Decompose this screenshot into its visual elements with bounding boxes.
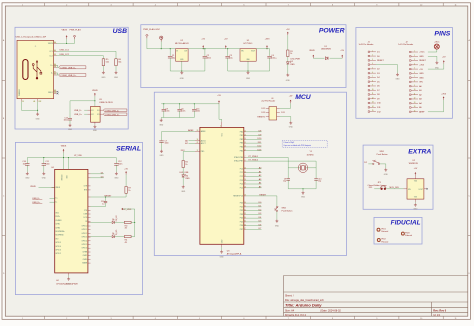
ground C11: [42, 172, 47, 180]
svg-text:VBUS: VBUS: [30, 186, 36, 188]
svg-text:1u: 1u: [102, 203, 104, 205]
svg-text:470: 470: [125, 242, 128, 244]
ground C7: [160, 150, 165, 158]
section box EXTRA: [363, 145, 433, 209]
connector gnd pins: [37, 99, 39, 102]
svg-text:TX_LED: TX_LED: [116, 229, 118, 236]
power +3V3: [265, 39, 271, 49]
resistor R7: [125, 187, 131, 194]
svg-text:PB3: PB3: [240, 143, 243, 145]
svg-text:10u: 10u: [229, 57, 232, 59]
ground connector: [36, 113, 41, 121]
serial U4 CP2102N: [51, 167, 88, 273]
svg-text:GND: GND: [25, 178, 30, 180]
resistor R5: [102, 59, 109, 66]
wire J4 +5V: [280, 103, 291, 108]
svg-text:Id: 1/1: Id: 1/1: [433, 314, 441, 317]
esd pins: [87, 109, 90, 111]
net label A6: [189, 140, 196, 142]
svg-text:RSTb: RSTb: [55, 216, 59, 218]
svg-text:WS2812B: WS2812B: [409, 163, 419, 165]
svg-text:USB: USB: [113, 28, 127, 35]
ground left rail: [180, 71, 185, 80]
mcu bottom gnd pin: [221, 244, 223, 247]
svg-text:LP_VDD: LP_VDD: [74, 155, 82, 157]
reset pullup branch: [124, 169, 128, 175]
svg-text:USB_CC2: USB_CC2: [60, 54, 70, 56]
ground button: [275, 220, 280, 228]
svg-text:R11: R11: [125, 240, 128, 242]
svg-text:1x15 Pin Header: 1x15 Pin Header: [398, 44, 413, 46]
svg-text:B6: B6: [54, 66, 56, 68]
wire R7 to reset: [91, 193, 127, 197]
svg-text:10u: 10u: [172, 57, 175, 59]
power +5V mcu top: [217, 95, 221, 104]
J4 pins: [266, 107, 269, 109]
svg-text:VBUS: VBUS: [61, 145, 67, 147]
U4 right misc pins: [88, 185, 91, 187]
ground J2: [435, 61, 440, 69]
svg-text:R10: R10: [125, 226, 128, 228]
svg-text:RX_LED: RX_LED: [116, 214, 118, 221]
wire C15 gnd: [69, 120, 71, 124]
svg-text:PB2: PB2: [240, 139, 243, 141]
fiducial FID1: [377, 228, 389, 233]
ground C15: [68, 124, 73, 131]
svg-text:USB_D+: USB_D+: [74, 114, 83, 116]
wire C12 gnd: [115, 165, 117, 172]
svg-text:GND: GND: [419, 77, 424, 79]
wire regulator2 out: [256, 48, 269, 50]
mcu right pins: [244, 131, 246, 133]
svg-text:RED: RED: [291, 64, 296, 66]
capacitor C2: [203, 49, 211, 60]
svg-text:PD3: PD3: [240, 214, 244, 216]
svg-text:WAKE: WAKE: [82, 262, 88, 265]
global label COM4_USB_D-: [59, 66, 86, 70]
svg-text:D5: D5: [112, 219, 114, 221]
svg-text:Fiducial: Fiducial: [382, 231, 389, 233]
capacitor C10: [314, 179, 321, 183]
svg-text:B5: B5: [54, 54, 56, 56]
wire gnd rail left: [169, 58, 171, 71]
ground mcu: [220, 250, 225, 258]
mcu top power pins: [221, 122, 223, 128]
wire sw1 to gnd: [380, 164, 386, 168]
U4 bottom gnd: [68, 273, 70, 276]
svg-text:GND: GND: [384, 174, 389, 176]
svg-text:HT7533-1: HT7533-1: [244, 43, 254, 45]
svg-text:PD1: PD1: [240, 206, 244, 208]
wire VBUS: [57, 39, 67, 44]
svg-text:GPIO.4: GPIO.4: [82, 240, 88, 242]
svg-text:1k: 1k: [185, 164, 187, 166]
mcu left pins: [195, 131, 200, 133]
push button SW2: [274, 206, 292, 212]
wire esd gnd: [94, 123, 96, 126]
resistor R11: [115, 236, 131, 244]
svg-text:GND: GND: [220, 257, 225, 259]
svg-text:GPIO.4: GPIO.4: [55, 246, 61, 248]
wire decoupling rail: [161, 103, 219, 105]
led D6: [112, 229, 118, 238]
svg-text:VBUS: VBUS: [48, 43, 54, 45]
wire J4 gnd: [280, 117, 291, 122]
svg-text:13: 13: [372, 102, 374, 104]
svg-text:FIDUCIAL: FIDUCIAL: [391, 220, 421, 227]
svg-text:MCU: MCU: [295, 94, 312, 101]
wire reset to button: [246, 196, 277, 206]
wire J1 gnd pin4: [376, 65, 398, 73]
wire txled row: [91, 236, 112, 238]
svg-text:PD2: PD2: [240, 210, 244, 212]
ground led: [286, 74, 291, 82]
svg-text:PWR_FLAG: PWR_FLAG: [70, 29, 82, 32]
svg-text:14: 14: [414, 106, 416, 108]
svg-text:GND: GND: [419, 56, 424, 58]
svg-text:Caps are included with PCB foo: Caps are included with PCB footprint: [283, 144, 311, 147]
svg-text:CC1: CC1: [49, 51, 53, 53]
section box USB: [15, 27, 128, 129]
svg-text:Size: A4: Size: A4: [285, 310, 295, 313]
power VBUS serial: [61, 145, 67, 152]
ground C14: [25, 172, 30, 180]
svg-text:DIN: DIN: [408, 189, 411, 191]
fiducial FID2: [377, 239, 388, 244]
svg-text:D6: D6: [112, 233, 114, 235]
power +5V mid: [201, 39, 205, 49]
svg-text:20: 20: [197, 130, 199, 132]
svg-text:CHR0: CHR0: [83, 259, 88, 261]
svg-text:Sheet: /: Sheet: /: [285, 295, 294, 298]
svg-text:XTAL2/PB7: XTAL2/PB7: [234, 160, 243, 163]
svg-text:12p: 12p: [318, 181, 321, 183]
svg-text:PB4: PB4: [240, 146, 243, 148]
wire ws2812 gnd: [414, 202, 416, 203]
svg-text:PC3: PC3: [240, 180, 244, 182]
ground C12: [114, 172, 119, 180]
svg-text:GND: GND: [181, 191, 186, 193]
wire VBUS to esd: [70, 101, 95, 107]
svg-text:B12: B12: [39, 101, 42, 103]
svg-text:+VDC: +VDC: [155, 29, 161, 31]
schottky branch VBUS to +5V: [309, 50, 315, 58]
ground sw1: [384, 168, 389, 176]
esd protection U5: [91, 99, 114, 122]
wire connector gnd: [37, 102, 39, 113]
wire button gnd: [276, 212, 278, 220]
svg-text:17: 17: [197, 150, 199, 152]
svg-text:D2: D2: [291, 61, 293, 63]
svg-text:RED: RED: [186, 178, 191, 180]
svg-text:CC2: CC2: [49, 55, 53, 57]
capacitor C13: [192, 104, 200, 113]
svg-text:11: 11: [414, 93, 416, 95]
svg-text:VOUT: VOUT: [251, 51, 255, 53]
svg-text:GPIO.5: GPIO.5: [55, 242, 61, 244]
section box POWER: [141, 25, 346, 88]
svg-text:D+: D+: [55, 198, 57, 200]
svg-text:POWER: POWER: [319, 28, 345, 35]
svg-text:13: 13: [414, 102, 416, 104]
capacitor C8: [162, 104, 170, 113]
capacitor C9: [283, 179, 290, 183]
svg-text:GND: GND: [159, 125, 164, 127]
svg-text:RESET: RESET: [377, 60, 384, 62]
svg-text:PD6: PD6: [240, 225, 244, 227]
svg-text:1N5819WS: 1N5819WS: [321, 49, 332, 51]
svg-text:15: 15: [414, 110, 416, 112]
svg-text:470: 470: [125, 228, 128, 230]
svg-text:B7: B7: [54, 74, 56, 76]
svg-text:PD4: PD4: [240, 218, 244, 220]
capacitor C11: [42, 157, 50, 165]
svg-text:PC1: PC1: [240, 172, 244, 174]
wire xtal gnd: [288, 180, 316, 189]
svg-text:DOUT: DOUT: [419, 189, 423, 191]
svg-text:100u+: 100u+: [271, 57, 277, 59]
svg-text:GND: GND: [413, 208, 418, 210]
power VBUS esd: [92, 90, 98, 96]
capacitor C13 dtr: [88, 196, 107, 206]
svg-text:GND: GND: [160, 155, 165, 157]
push button SW1: [373, 151, 388, 165]
svg-text:SHIELD: SHIELD: [19, 89, 21, 96]
svg-text:VBUS: VBUS: [309, 50, 315, 52]
svg-text:RESET: RESET: [259, 194, 267, 196]
svg-text:USB_C_Receptacle_USB2.0_16P: USB_C_Receptacle_USB2.0_16P: [16, 36, 47, 39]
U4 top pins: [63, 168, 65, 170]
svg-text:PC0: PC0: [240, 168, 244, 170]
svg-text:D+: D+: [50, 65, 52, 67]
svg-text:15: 15: [372, 110, 374, 112]
wire AREF to C7: [162, 131, 187, 133]
section box SERIAL: [15, 142, 142, 294]
diode D1: [321, 46, 332, 60]
svg-text:D1: D1: [325, 46, 327, 48]
wire D+ pair: [56, 73, 59, 75]
resistor R1: [287, 50, 293, 57]
svg-text:VIN: VIN: [241, 51, 244, 53]
svg-text:PC5: PC5: [240, 187, 244, 189]
svg-text:CP2102N-A02-GQFN28: CP2102N-A02-GQFN28: [56, 282, 78, 285]
svg-text:GPIO.3: GPIO.3: [82, 237, 88, 239]
svg-text:2x2 Pin Header: 2x2 Pin Header: [261, 101, 275, 103]
svg-text:GND: GND: [246, 78, 251, 80]
net label USB_D+ serial: [50, 201, 55, 203]
net label USB_D- serial: [50, 197, 55, 199]
svg-text:CHR0: CHR0: [55, 227, 60, 229]
svg-text:PD7: PD7: [240, 229, 244, 231]
svg-text:Fiducial: Fiducial: [405, 235, 412, 237]
svg-text:GND: GND: [275, 225, 280, 227]
svg-text:B8: B8: [54, 92, 56, 94]
power +3V3 J2: [441, 93, 447, 99]
svg-text:COM4_USB_D+: COM4_USB_D+: [60, 75, 77, 77]
wire xtal2: [246, 161, 316, 178]
capacitor C4: [267, 49, 277, 60]
U2 pins: [404, 188, 408, 190]
svg-text:COM4_USB_D-: COM4_USB_D-: [60, 67, 76, 69]
mcu U3 ATmega328P: [200, 127, 244, 255]
svg-text:PD0: PD0: [240, 203, 244, 205]
ground esd: [93, 125, 98, 132]
svg-text:PB1: PB1: [240, 135, 243, 137]
wire AREF: [187, 131, 195, 133]
ground right rail: [246, 71, 251, 80]
svg-text:GND: GND: [396, 78, 401, 80]
wire J2 +5V row: [428, 64, 444, 70]
regulator U1: [240, 40, 256, 61]
wire J2 gnd row: [428, 56, 437, 61]
svg-text:100n: 100n: [207, 57, 211, 59]
svg-text:100n: 100n: [165, 111, 169, 113]
svg-text:100n: 100n: [165, 143, 169, 145]
wire regulator1 out: [188, 48, 240, 50]
power +5V J2: [442, 56, 446, 63]
svg-text:16 MHz: 16 MHz: [307, 154, 314, 156]
global label COM4_USB_D+: [59, 74, 86, 78]
svg-text:5k1: 5k1: [106, 62, 109, 64]
svg-text:GND: GND: [36, 119, 41, 121]
capacitor C7: [159, 140, 168, 144]
svg-text:Title: Arduino Daily: Title: Arduino Daily: [285, 303, 322, 308]
svg-text:VREGIN: VREGIN: [62, 175, 64, 181]
wire USB_CC1: [57, 51, 116, 59]
svg-text:PD5: PD5: [240, 221, 244, 223]
led D5: [112, 214, 118, 223]
svg-text:RESET/PC6: RESET/PC6: [233, 195, 243, 197]
capacitor C1: [168, 49, 175, 60]
wire sw1 left: [368, 163, 372, 165]
section box FIDUCIAL: [374, 217, 422, 244]
svg-text:I/O4: I/O4: [97, 110, 100, 112]
resistor R2: [182, 161, 188, 168]
svg-text:PC4: PC4: [240, 184, 244, 186]
svg-text:VBUS: VBUS: [92, 90, 98, 92]
svg-text:LED_PWR: LED_PWR: [291, 58, 301, 60]
wire C11 gnd: [43, 165, 45, 172]
wire caps gnd: [164, 111, 195, 118]
wire USB_D+ into esd: [84, 113, 87, 115]
svg-text:12: 12: [414, 98, 416, 100]
svg-text:1x15 Pin Header: 1x15 Pin Header: [359, 44, 374, 46]
led D2: [286, 58, 300, 66]
capacitor C14: [22, 158, 29, 166]
svg-text:MIC39L-AE3-R: MIC39L-AE3-R: [175, 42, 189, 45]
wire rxled row: [91, 221, 112, 223]
svg-text:I/O1: I/O1: [91, 110, 94, 112]
svg-text:KiCad E.D.A. 8.0.2: KiCad E.D.A. 8.0.2: [285, 314, 307, 317]
svg-text:C-load = 18pF: C-load = 18pF: [283, 142, 294, 144]
wire R2 to led: [182, 168, 184, 175]
global label COM4_USB_D- right: [103, 109, 127, 112]
wire input rail: [147, 38, 176, 48]
svg-text:SBU1: SBU1: [48, 92, 53, 94]
svg-text:GND: GND: [114, 77, 119, 79]
svg-text:Push Button: Push Button: [377, 153, 388, 156]
svg-text:GND: GND: [286, 80, 291, 82]
wire R1 to LED: [287, 57, 289, 62]
svg-text:GPIO.3: GPIO.3: [55, 250, 61, 252]
svg-text:VIN: VIN: [419, 82, 423, 84]
ground R5: [101, 71, 106, 79]
title block: [284, 276, 468, 317]
power +5V led branch: [286, 29, 290, 35]
power +5V J4: [289, 96, 293, 104]
svg-text:12: 12: [372, 97, 374, 99]
svg-text:VSS: VSS: [414, 197, 417, 199]
svg-text:SUSPEND: SUSPEND: [55, 235, 64, 237]
svg-text:J1: J1: [35, 46, 37, 48]
svg-text:COM4_USB_D+: COM4_USB_D+: [105, 114, 121, 116]
led D4: [180, 172, 191, 180]
connector pin stubs: [54, 42, 57, 44]
wire R5 to gnd: [102, 66, 104, 71]
svg-text:CHR1: CHR1: [55, 224, 60, 226]
svg-text:SUSPENDb: SUSPENDb: [55, 231, 64, 233]
global label COM4_USB_D+ right: [103, 113, 127, 116]
wire C7 gnd: [161, 142, 163, 149]
ground led D4: [181, 185, 186, 193]
svg-text:100n: 100n: [181, 111, 185, 113]
wire J2 +VDC: [428, 49, 437, 52]
svg-text:GPIO.6: GPIO.6: [82, 248, 88, 250]
svg-text:GND: GND: [180, 78, 185, 80]
section box MCU: [154, 92, 346, 255]
svg-text:AREF: AREF: [419, 110, 425, 113]
wire +5V to R1: [287, 35, 289, 50]
svg-text:12p: 12p: [283, 181, 286, 183]
resistor R6: [115, 59, 122, 66]
wire D- pair: [56, 65, 59, 67]
svg-text:5k1: 5k1: [118, 62, 121, 64]
svg-text:GND: GND: [289, 126, 294, 128]
capacitor C12: [114, 158, 122, 166]
svg-text:10u: 10u: [23, 163, 26, 165]
net label VBUS left: [39, 187, 55, 189]
wire jp1 left: [374, 188, 380, 190]
svg-text:RESET: RESET: [419, 60, 426, 62]
svg-text:Fiducial: Fiducial: [382, 241, 389, 243]
svg-text:MCU_DIN: MCU_DIN: [390, 187, 400, 189]
svg-text:LED_USB: LED_USB: [180, 172, 190, 174]
wire jp1 to led: [386, 188, 403, 190]
wire USB_CC2: [57, 56, 104, 59]
capacitor C3: [225, 49, 232, 60]
wire C14 gnd: [26, 165, 28, 172]
power +5V before reg2: [224, 39, 228, 49]
capacitor C6: [177, 104, 185, 113]
svg-text:1k: 1k: [290, 53, 292, 55]
svg-text:100n: 100n: [196, 111, 200, 113]
svg-text:| Date: 2024-08-02: | Date: 2024-08-02: [320, 310, 341, 313]
section box PINS: [356, 28, 453, 119]
usb connector J1: [16, 36, 54, 99]
svg-text:ADC6: ADC6: [201, 139, 206, 142]
svg-text:14: 14: [372, 106, 374, 108]
ground J1: [396, 73, 401, 80]
svg-text:GPIO.2: GPIO.2: [55, 253, 61, 255]
wire J2 +3V3: [428, 100, 444, 112]
crystal Y1: [288, 151, 316, 172]
wire xtal1: [246, 157, 288, 178]
solder jumper JP1: [368, 182, 388, 190]
svg-text:COM4_USB_D-: COM4_USB_D-: [105, 110, 120, 112]
svg-text:GND: GND: [114, 178, 119, 180]
ground xtal: [301, 191, 306, 198]
wire R6 to gnd: [115, 66, 117, 71]
